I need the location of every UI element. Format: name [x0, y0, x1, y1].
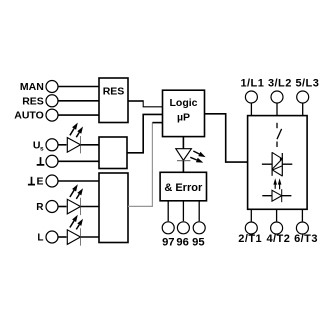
wire 3/L2 to output block [276, 103, 278, 116]
RES block [99, 78, 128, 123]
Logic uP block U1 [163, 90, 205, 136]
terminal 6/T3 [294, 222, 318, 245]
wire 1/L1 to output block [250, 103, 252, 116]
LED (L indicator) [67, 215, 83, 246]
svg-text:MAN: MAN [20, 81, 44, 93]
wire Logic to output block [205, 114, 248, 162]
svg-text:1/L1: 1/L1 [240, 78, 264, 90]
svg-text:RES: RES [103, 86, 125, 98]
wire AUTO to RES block [58, 114, 99, 116]
triac [262, 152, 292, 176]
svg-text:L: L [37, 233, 43, 244]
LED (R indicator) [67, 184, 83, 215]
wire RES to RES block [58, 100, 99, 102]
wire GND to input block [58, 160, 99, 162]
wire Error block to terminal 96 [182, 201, 184, 221]
wire L to LED [58, 236, 67, 238]
terminal 95 [192, 222, 205, 249]
terminal 1/L1 [240, 78, 264, 104]
svg-text:97: 97 [162, 236, 174, 248]
terminal 97 [162, 222, 174, 249]
terminal 2/T1 [238, 222, 262, 245]
svg-text:s: s [40, 145, 44, 152]
wire R to LED [58, 206, 67, 208]
terminal MAN [20, 81, 58, 94]
terminal RES [22, 95, 58, 108]
sensor input block [99, 173, 128, 243]
optocoupler arrows (up) [273, 178, 281, 189]
svg-text:3/L2: 3/L2 [268, 78, 292, 90]
wire Us to LED [58, 144, 67, 146]
svg-text:E: E [36, 176, 43, 188]
svg-text:5/L3: 5/L3 [295, 78, 319, 90]
LED (error indicator, pointing down) [176, 149, 206, 163]
Error relay block [160, 172, 206, 201]
svg-text:µP: µP [177, 112, 190, 124]
wire output block to 2/T1 [250, 209, 252, 221]
terminal R [36, 201, 58, 214]
wire output block to 4/T2 [276, 209, 278, 221]
svg-text:& Error: & Error [164, 182, 203, 194]
terminal 5/L3 [295, 78, 319, 104]
wire output block to 6/T3 [301, 209, 303, 221]
LED (Us indicator) [67, 123, 83, 154]
svg-text:96: 96 [176, 236, 188, 248]
svg-text:R: R [36, 202, 44, 213]
svg-text:2/T1: 2/T1 [238, 233, 262, 245]
terminal 96 [176, 222, 189, 249]
wire R LED to sensor block [80, 206, 99, 208]
wire LED to input block [80, 144, 99, 146]
wire input block to Logic [127, 114, 163, 152]
terminal GND E [28, 175, 58, 188]
wire Logic to error LED [182, 137, 184, 149]
terminal 4/T2 [266, 222, 290, 245]
wire L LED to sensor block [80, 236, 99, 238]
wire GND E to sensor block [58, 180, 99, 182]
svg-text:AUTO: AUTO [14, 110, 44, 122]
wire sensor block to Logic (gray) [128, 123, 163, 207]
svg-text:4/T2: 4/T2 [266, 233, 290, 245]
terminal L [37, 231, 58, 244]
terminal Us [33, 139, 58, 153]
wire RES block output to Logic (stepped) [128, 100, 163, 107]
svg-text:95: 95 [192, 236, 204, 248]
svg-text:Logic: Logic [170, 97, 198, 109]
wire 5/L3 to output block [302, 103, 304, 116]
wire Error block to terminal 97 [167, 201, 169, 221]
output switching block [248, 116, 308, 210]
terminal AUTO [14, 109, 58, 122]
terminal 3/L2 [268, 78, 292, 104]
svg-text:6/T3: 6/T3 [294, 233, 318, 245]
wire MAN to RES block [58, 86, 99, 88]
switch contact (dashed) [277, 123, 282, 147]
terminal GND [37, 155, 58, 167]
svg-text:RES: RES [22, 95, 44, 107]
wire error LED to Error block [182, 161, 184, 173]
supply input block [99, 137, 127, 169]
optocoupler diode [262, 189, 291, 202]
wire Error block to terminal 95 [198, 201, 200, 221]
